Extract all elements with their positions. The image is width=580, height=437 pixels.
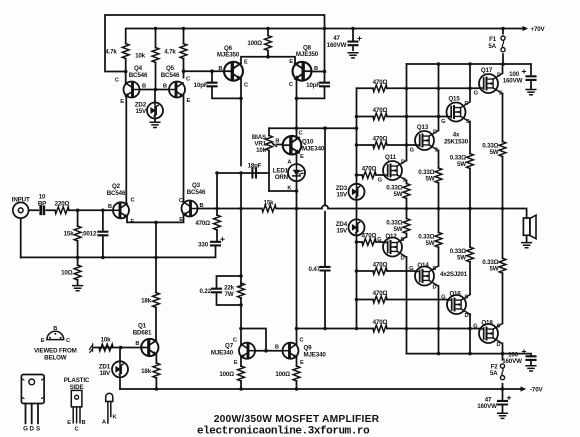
resistor 4.7k left — [122, 44, 129, 59]
wire VAS column below box to Q7 collector — [240, 305, 242, 344]
capacitor 100uF 160VW bottom right — [527, 356, 536, 360]
svg-text:330: 330 — [198, 241, 209, 248]
capacitor 10uF BP input — [41, 207, 44, 214]
svg-text:E: E — [41, 338, 45, 344]
svg-text:15V: 15V — [135, 108, 147, 115]
svg-text:D: D — [30, 426, 35, 433]
svg-text:S: S — [499, 91, 503, 97]
resistor 22k 7W — [238, 283, 245, 298]
svg-text:160VW: 160VW — [327, 42, 347, 49]
svg-text:G: G — [377, 237, 382, 243]
svg-text:5W: 5W — [426, 176, 435, 183]
wire 100R top resistor leads — [267, 29, 269, 57]
zener ZD2 15V — [147, 103, 163, 119]
svg-text:MJE350: MJE350 — [217, 52, 240, 59]
wire tail column 18k Q1 — [155, 222, 157, 341]
resistor 470R Q3 base — [214, 215, 221, 230]
resistor 0.33R 5W Q14 — [435, 232, 442, 247]
svg-text:Q15: Q15 — [448, 96, 460, 103]
svg-text:15V: 15V — [336, 192, 348, 199]
capacitor 10pF left — [208, 83, 217, 87]
wire Q6 collector main VAS column — [240, 78, 242, 286]
svg-text:200W/350W MOSFET AMPLIFIER: 200W/350W MOSFET AMPLIFIER — [214, 414, 380, 425]
wire input base line — [29, 209, 114, 211]
svg-text:D: D — [497, 342, 501, 348]
capacitor 47uF 160VW bottom — [498, 401, 507, 405]
svg-text:C: C — [186, 77, 190, 83]
svg-text:5W: 5W — [394, 226, 403, 233]
ground below speaker — [522, 243, 532, 248]
svg-text:BC546: BC546 — [161, 72, 180, 79]
svg-text:470Ω: 470Ω — [362, 166, 377, 173]
capacitor 100uF 160VW top right — [527, 76, 536, 80]
wire Q7 collector jog to driver base line — [241, 329, 266, 351]
resistor 0.33R 5W Q18 — [499, 258, 506, 273]
svg-text:S: S — [401, 237, 405, 243]
mosfet Q13 2SK1530 — [415, 131, 438, 151]
wire Q5-C node to Q6 base — [184, 71, 225, 77]
wire Q1 emitter 18k column — [155, 355, 157, 389]
wire Q4-collector to Q8-base mirror line — [105, 15, 325, 72]
svg-text:E: E — [289, 59, 293, 65]
wire Q17 gate row — [357, 87, 479, 89]
wire F1 column — [502, 29, 504, 65]
wire Q14 gate row — [357, 270, 415, 272]
svg-text:E: E — [300, 360, 304, 366]
ground below ZD2 — [150, 122, 160, 127]
resistor 15k input bias — [74, 226, 81, 241]
svg-text:4.7k: 4.7k — [164, 48, 176, 55]
svg-text:MJE340: MJE340 — [304, 351, 327, 358]
resistor 18k tail upper — [153, 293, 160, 308]
svg-text:B: B — [142, 84, 146, 90]
transistor Q2 BC546 — [113, 202, 129, 218]
svg-text:470Ω: 470Ω — [362, 233, 377, 240]
wire 100uF top right cap ground lead — [530, 87, 532, 88]
svg-text:10Ω: 10Ω — [61, 270, 73, 277]
wire Q11 drain column — [406, 64, 408, 161]
wire VR1 wiper arrow lead — [277, 144, 283, 146]
wire 18pF to bias box — [258, 172, 269, 174]
svg-text:25K1530: 25K1530 — [444, 138, 469, 145]
wire Q6/Q8 emitter line — [241, 57, 295, 65]
svg-text:470Ω: 470Ω — [195, 220, 210, 227]
svg-text:470Ω: 470Ω — [373, 290, 388, 297]
wire 0.47 column — [324, 128, 326, 328]
resistor 470R gate Q11 — [362, 172, 376, 179]
transistor Q3 BC546 — [182, 201, 198, 217]
resistor 470R gate Q12 — [362, 239, 376, 246]
capacitor 47uF 160VW top — [349, 42, 358, 46]
wire zener bus between ZD3 ZD4 crossing rail — [356, 200, 358, 220]
wire Q12 drain column — [406, 257, 408, 354]
svg-text:C: C — [179, 198, 183, 204]
svg-text:18k: 18k — [141, 368, 152, 375]
svg-text:D: D — [465, 313, 469, 319]
resistor 470R gate Q14 — [373, 268, 387, 275]
capacitor 10pF right — [320, 83, 329, 87]
svg-text:18k: 18k — [141, 298, 152, 305]
svg-text:10k: 10k — [256, 147, 267, 154]
svg-text:C: C — [115, 78, 119, 84]
wire Q12 gate row — [357, 241, 383, 243]
package TO-247 viewed from below — [47, 331, 64, 339]
wire 4.7k left column — [125, 59, 127, 84]
transistor Q8 MJE350 — [293, 62, 312, 81]
svg-text:B: B — [108, 204, 112, 210]
wire lower drive line to Q18 gate — [297, 328, 480, 330]
svg-text:Q17: Q17 — [481, 67, 493, 74]
wire 15k input bias column — [77, 210, 79, 257]
wire Q3 base feedback line with 15k — [198, 209, 527, 219]
svg-text:0.47: 0.47 — [309, 266, 321, 273]
transistor Q1 BD681 — [141, 339, 158, 356]
svg-text:S: S — [403, 178, 407, 184]
svg-text:.0012: .0012 — [82, 231, 97, 238]
resistor 470R gate Q13 — [373, 142, 387, 149]
svg-text:160VW: 160VW — [502, 358, 522, 365]
wire Q18 source column with 0.33 — [502, 209, 504, 324]
resistor 4.7k right — [180, 44, 187, 59]
svg-text:470Ω: 470Ω — [373, 136, 388, 143]
svg-text:Q14: Q14 — [417, 262, 429, 269]
transistor Q10 MJE340 bias — [283, 136, 302, 155]
ground below 10R — [73, 286, 83, 291]
fuse F1 5A — [501, 36, 505, 52]
package TO-3P drawing — [21, 375, 44, 404]
resistor 0.33R 5W Q11 — [403, 184, 410, 199]
svg-text:BD681: BD681 — [133, 329, 152, 336]
wire Q13 gate row — [357, 144, 415, 146]
svg-text:D: D — [401, 256, 405, 262]
ground below 100uF top right — [526, 90, 536, 95]
trimmer VR1 10k — [266, 136, 273, 151]
resistor 470R gate Q15 — [373, 113, 387, 120]
svg-text:E: E — [120, 99, 124, 105]
resistor 0.33R 5W Q13 — [435, 168, 442, 183]
svg-text:S: S — [497, 324, 501, 330]
wire 4.7k right column to Q5 collector node — [183, 29, 185, 72]
svg-text:E: E — [179, 217, 183, 223]
svg-text:Q10: Q10 — [302, 139, 314, 146]
resistor 220R input — [55, 207, 69, 214]
svg-text:18V: 18V — [99, 370, 111, 377]
package LED drawing — [106, 393, 113, 401]
resistor 0.33R 5W Q12 — [403, 219, 410, 234]
svg-text:C: C — [244, 83, 248, 89]
svg-text:G: G — [409, 266, 414, 272]
wire bottom 47uF cap column — [502, 389, 504, 412]
wire Q16 source column with 0.33 — [469, 209, 471, 295]
wire Q15 gate row — [357, 116, 447, 118]
wire ZD1 column — [119, 348, 121, 390]
svg-text:S: S — [36, 426, 40, 433]
svg-text:MJE350: MJE350 — [296, 51, 319, 58]
svg-text:B: B — [200, 203, 204, 209]
mosfet Q17 2SK1530 — [479, 74, 502, 94]
svg-text:BP: BP — [38, 200, 46, 207]
svg-text:E: E — [67, 420, 71, 426]
svg-text:-70V: -70V — [530, 387, 543, 394]
mosfet Q16 2SJ201 — [447, 295, 470, 315]
svg-text:15k: 15k — [64, 231, 75, 238]
svg-text:+70V: +70V — [531, 26, 546, 33]
svg-text:470Ω: 470Ω — [373, 319, 388, 326]
wire speaker drop and ground — [526, 235, 528, 241]
wire 47uF top cap column — [352, 29, 354, 51]
wire Q13 drain column — [438, 64, 440, 131]
svg-text:S: S — [435, 148, 439, 154]
wire Q7 emitter 100R column — [240, 357, 242, 389]
svg-text:18pF: 18pF — [248, 163, 262, 170]
transistor Q9 MJE340 — [283, 343, 299, 359]
svg-text:B: B — [275, 139, 279, 145]
svg-text:G: G — [410, 148, 415, 154]
svg-text:E: E — [131, 219, 135, 225]
mosfet Q18 2SJ201 — [479, 324, 502, 344]
wire Q8 base node down to 10pF — [297, 72, 325, 99]
svg-text:S: S — [433, 266, 437, 272]
svg-text:15k: 15k — [264, 199, 275, 206]
svg-text:F1: F1 — [489, 36, 497, 43]
resistor 10R ground lift — [74, 265, 81, 280]
svg-text:A: A — [287, 160, 291, 166]
wire Q1 base line — [95, 347, 144, 349]
svg-text:B: B — [314, 66, 318, 72]
wire ZD2 bottom to ground — [154, 118, 156, 122]
capacitor .0012 — [98, 232, 107, 236]
wire 10R ground lift — [77, 257, 79, 285]
svg-text:Q12: Q12 — [385, 233, 397, 240]
svg-text:C: C — [289, 82, 293, 88]
svg-text:Q16: Q16 — [449, 291, 461, 298]
capacitor 0.22 — [212, 289, 221, 293]
led LED1 ORN — [288, 164, 305, 181]
resistor 18k Q1 emitter — [153, 363, 160, 378]
resistor 0.33R 5W Q15 — [467, 154, 474, 169]
svg-text:5W: 5W — [394, 191, 403, 198]
wire Q16 gate row — [357, 299, 447, 301]
mosfet Q14 2SJ201 — [415, 266, 438, 286]
resistor 470R gate Q18 — [373, 325, 387, 332]
wire Q15 source column with 0.33 — [469, 122, 471, 209]
wire lower drain bus — [407, 354, 532, 365]
resistor 15k feedback — [262, 205, 276, 212]
resistor 470R gate Q16 — [373, 296, 387, 303]
svg-text:5A: 5A — [490, 370, 498, 377]
svg-text:Q11: Q11 — [385, 154, 397, 161]
svg-text:INPUT: INPUT — [12, 197, 30, 204]
wire Q9 collector lead — [296, 329, 298, 345]
svg-text:C: C — [300, 338, 304, 344]
wire Q15 drain column — [469, 64, 471, 102]
wire Q7-Q9 base line — [255, 350, 283, 352]
wire bias box bottom edge — [269, 190, 297, 192]
arrow -70V — [521, 386, 527, 391]
resistor 100R Q7 — [238, 366, 245, 381]
svg-text:MJE340: MJE340 — [211, 349, 234, 356]
arrow +70V — [523, 26, 529, 31]
svg-text:B: B — [218, 66, 222, 72]
svg-text:100Ω: 100Ω — [247, 40, 262, 47]
svg-text:D: D — [497, 73, 501, 79]
wire Q9 emitter 100R column — [296, 357, 298, 389]
resistor 100R Q9 — [293, 366, 300, 381]
svg-text:E: E — [300, 154, 304, 160]
svg-text:10pF: 10pF — [194, 82, 208, 89]
svg-text:B: B — [275, 345, 279, 351]
wire Q17 drain column — [502, 64, 504, 73]
svg-text:D: D — [433, 130, 437, 136]
wire Q13 source column with 0.33 — [438, 151, 440, 209]
svg-text:SIDE: SIDE — [70, 384, 84, 391]
wire Q16 drain column — [469, 314, 471, 354]
wire 0.22/22k box — [217, 276, 242, 305]
resistor 0.33R 5W Q17 — [499, 142, 506, 157]
svg-text:C: C — [299, 131, 303, 137]
svg-text:A: A — [102, 420, 106, 426]
svg-text:470Ω: 470Ω — [373, 262, 388, 269]
wire -70V bottom rail — [120, 388, 524, 390]
wire rail hop over 0.47 column — [322, 205, 328, 208]
svg-text:4x2SJ201: 4x2SJ201 — [440, 271, 468, 278]
input jack — [13, 202, 29, 218]
svg-text:5W: 5W — [426, 240, 435, 247]
svg-text:160VW: 160VW — [503, 78, 523, 85]
svg-text:ORN: ORN — [275, 174, 289, 181]
wire 10k tail column — [155, 29, 157, 90]
svg-text:B: B — [53, 326, 57, 332]
svg-text:BC546: BC546 — [107, 190, 126, 197]
wire F2 column — [502, 354, 504, 389]
fuse F2 5A — [500, 364, 504, 380]
resistor 10k Q1 base — [99, 344, 113, 351]
wire Q12 source column with 0.33 — [406, 209, 408, 238]
svg-text:BELOW: BELOW — [44, 354, 67, 361]
wire signal ground line — [21, 247, 216, 257]
svg-text:B: B — [82, 420, 86, 426]
svg-text:10k: 10k — [101, 337, 112, 344]
wire Q3 base 470R column — [216, 209, 218, 241]
svg-text:B: B — [135, 341, 139, 347]
wire 18pF node branch — [217, 173, 258, 209]
svg-text:100Ω: 100Ω — [219, 371, 234, 378]
transistor Q4 BC546 — [124, 82, 140, 98]
zener ZD1 18V — [112, 361, 128, 377]
wire Q8 collector column to Q10 LED1 — [296, 78, 298, 328]
svg-text:E: E — [187, 98, 191, 104]
svg-text:C: C — [233, 338, 237, 344]
svg-text:BC546: BC546 — [129, 72, 148, 79]
svg-text:BC546: BC546 — [187, 189, 206, 196]
wire ZD2 top lead — [154, 90, 156, 103]
wire Q11 source column with 0.33 — [406, 181, 408, 209]
wire bias box left edge with VR1 — [268, 128, 270, 191]
svg-text:5A: 5A — [488, 43, 496, 50]
wire +70V rail — [126, 29, 526, 44]
svg-text:D: D — [401, 160, 405, 166]
wire Q14 drain column — [438, 286, 440, 354]
wire Q5 emitter to Q3 collector — [183, 96, 185, 203]
ground below top 47uF — [348, 53, 358, 58]
transistor Q7 MJE340 — [239, 343, 255, 359]
wire Q4-Q5 base line — [140, 89, 170, 91]
svg-text:G: G — [23, 426, 28, 433]
svg-text:5W: 5W — [490, 149, 499, 156]
svg-text:C: C — [66, 338, 70, 344]
wire input jack stem to ground line — [20, 218, 22, 257]
svg-text:5W: 5W — [490, 266, 499, 273]
svg-text:E: E — [244, 60, 248, 66]
svg-text:100Ω: 100Ω — [275, 371, 290, 378]
svg-text:4.7k: 4.7k — [105, 48, 117, 55]
package TO-126 plastic side — [71, 390, 82, 407]
svg-text:electronicaonline.3xforum.ro: electronicaonline.3xforum.ro — [197, 426, 370, 437]
wire upper drain bus — [407, 64, 532, 87]
speaker — [523, 218, 530, 235]
wire 10pF left branch — [212, 71, 241, 98]
svg-text:D: D — [433, 285, 437, 291]
svg-text:G: G — [441, 295, 446, 301]
wire Q11 gate row — [357, 174, 383, 176]
svg-text:15V: 15V — [336, 228, 348, 235]
svg-text:220Ω: 220Ω — [55, 200, 70, 207]
svg-text:E: E — [234, 360, 238, 366]
wire bias box top edge — [269, 127, 357, 129]
svg-text:470Ω: 470Ω — [373, 107, 388, 114]
svg-text:MJE340: MJE340 — [302, 146, 325, 153]
svg-text:Q13: Q13 — [417, 124, 429, 131]
svg-text:S: S — [465, 295, 469, 301]
svg-text:G: G — [441, 119, 446, 125]
svg-text:10pF: 10pF — [306, 82, 320, 89]
ground below 100uF bottom right — [526, 366, 536, 371]
svg-text:470Ω: 470Ω — [373, 79, 388, 86]
transistor Q5 BC546 — [169, 82, 185, 98]
transistor Q6 MJE350 — [224, 62, 243, 81]
resistor 470R gate Q17 — [373, 85, 387, 92]
capacitor 0.47 — [321, 267, 330, 271]
svg-text:5W: 5W — [457, 255, 466, 262]
svg-text:G: G — [378, 178, 383, 184]
svg-text:G: G — [474, 91, 479, 97]
capacitor 330uF feedback — [211, 242, 220, 246]
svg-text:5W: 5W — [457, 161, 466, 168]
svg-text:Q18: Q18 — [481, 320, 493, 327]
zener ZD4 15V — [349, 219, 365, 235]
svg-text:S: S — [466, 119, 470, 125]
ground below bottom 47uF — [498, 413, 508, 418]
svg-text:10k: 10k — [135, 53, 146, 60]
wire .0012 column — [102, 210, 104, 257]
wire zener bus lower — [356, 235, 358, 328]
wire Q14 source column with 0.33 — [438, 209, 440, 267]
zener ZD3 15V — [349, 184, 365, 200]
mosfet Q12 2SJ201 — [383, 237, 406, 257]
resistor 10k tail — [152, 48, 159, 63]
capacitor 18pF — [252, 169, 256, 178]
chassis ground at 10k — [89, 344, 95, 353]
svg-text:7W: 7W — [225, 291, 234, 298]
mosfet Q11 2SK1530 — [383, 161, 406, 181]
wire Q2 collector to Q4 emitter — [125, 96, 127, 205]
svg-text:B: B — [163, 84, 167, 90]
resistor 100R top — [265, 36, 272, 51]
svg-text:C: C — [75, 427, 79, 433]
svg-text:G: G — [473, 324, 478, 330]
svg-text:D: D — [465, 101, 469, 107]
wire Q17 source column with 0.33 — [502, 94, 504, 209]
